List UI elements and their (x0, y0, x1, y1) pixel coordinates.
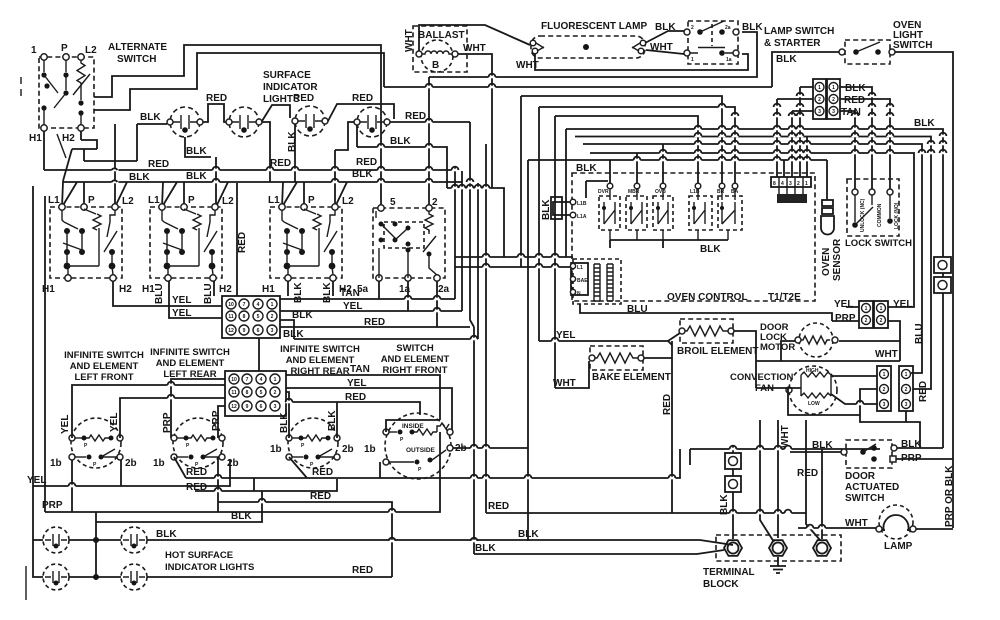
svg-text:L1: L1 (577, 265, 583, 271)
svg-text:2: 2 (880, 318, 883, 324)
bus row 5 to relay L1B (555, 116, 698, 183)
svg-text:2: 2 (818, 97, 821, 103)
svg-text:H2: H2 (62, 133, 75, 144)
wire 2b riser LF (120, 460, 122, 486)
wire TAN from block2 (286, 375, 440, 420)
svg-text:OVEN: OVEN (821, 248, 832, 276)
svg-text:BLK: BLK (140, 112, 161, 123)
svg-text:BLK: BLK (700, 244, 721, 255)
wire strip pin1 left drop (800, 87, 813, 177)
svg-text:BLK: BLK (292, 310, 313, 321)
svg-text:BLK: BLK (576, 163, 597, 174)
wire RED mid row 2 (195, 457, 392, 577)
infinite switch left rear (153, 410, 239, 469)
svg-text:P: P (88, 195, 95, 206)
BLK bus left (63, 181, 462, 182)
surface indicator light 1 (167, 107, 203, 137)
svg-text:AND ELEMENT: AND ELEMENT (156, 358, 225, 369)
wire PRP riser to lamps (95, 512, 97, 577)
svg-text:T1/T2E: T1/T2E (768, 292, 801, 303)
wire strip RED to lock switch no (840, 99, 890, 189)
hot surface indicator light 4 (121, 564, 147, 590)
wire RED jumper lamp3-lamp4 (328, 104, 394, 121)
svg-text:INFINITE SWITCH: INFINITE SWITCH (150, 347, 230, 358)
svg-text:YEL: YEL (893, 299, 912, 310)
terminal nut 1 (724, 540, 742, 556)
wire RED bottom row (147, 462, 392, 577)
svg-text:2b: 2b (342, 444, 354, 455)
svg-text:RED: RED (345, 392, 366, 403)
svg-text:WHT: WHT (780, 425, 791, 448)
wire BLK from lamp2 (147, 540, 733, 545)
svg-text:HOT SURFACE: HOT SURFACE (165, 550, 233, 561)
svg-text:2: 2 (274, 390, 277, 396)
svg-text:AND ELEMENT: AND ELEMENT (381, 354, 450, 365)
bake element (589, 346, 671, 383)
svg-text:BLK: BLK (186, 171, 207, 182)
svg-text:YEL: YEL (343, 301, 362, 312)
svg-text:SENSOR: SENSOR (832, 238, 843, 281)
wire left vertical A (32, 186, 34, 486)
svg-text:6: 6 (257, 328, 260, 334)
svg-text:1b: 1b (364, 444, 376, 455)
svg-text:AND ELEMENT: AND ELEMENT (286, 355, 355, 366)
svg-text:BLK: BLK (283, 329, 304, 340)
svg-text:2: 2 (832, 97, 835, 103)
wire RED from block1 (280, 281, 470, 327)
relay K3 (653, 183, 673, 240)
svg-text:L1: L1 (268, 195, 280, 206)
svg-text:OUTSIDE: OUTSIDE (406, 447, 436, 454)
svg-text:2: 2 (905, 387, 908, 393)
svg-text:H2: H2 (219, 284, 232, 295)
svg-text:YEL: YEL (109, 413, 120, 432)
svg-text:2: 2 (271, 314, 274, 320)
svg-text:WHT: WHT (463, 43, 486, 54)
svg-text:DOOR: DOOR (845, 471, 876, 482)
svg-text:1: 1 (818, 85, 821, 91)
wires relays up to bus (610, 144, 663, 183)
switch right front (364, 413, 467, 479)
wire strip pin2 left drop (777, 99, 813, 177)
broil element (677, 319, 758, 357)
RED bus left (44, 169, 458, 171)
connector strip pair top right (813, 79, 866, 119)
wire PRP row (45, 432, 440, 512)
svg-text:RED: RED (364, 317, 385, 328)
switch box 2 (left rear surface unit switch) (150, 207, 222, 278)
left edge scan dashes (20, 77, 22, 96)
svg-text:RED: RED (405, 111, 426, 122)
svg-text:RED: RED (293, 93, 314, 104)
svg-text:3: 3 (271, 328, 274, 334)
svg-text:1: 1 (31, 45, 37, 56)
svg-text:RED: RED (237, 232, 248, 253)
lock switch (845, 179, 912, 249)
svg-text:8: 8 (773, 181, 776, 187)
svg-text:BLK: BLK (390, 136, 411, 147)
svg-text:1b: 1b (153, 458, 165, 469)
surface indicator light 4 (354, 107, 390, 137)
svg-text:TAN: TAN (340, 288, 360, 299)
wire 1b riser RR (289, 457, 307, 478)
switch box 4 (right front surface unit switch) (373, 208, 445, 278)
svg-text:BLK: BLK (845, 83, 866, 94)
svg-text:3: 3 (832, 109, 835, 115)
wire YEL from block2 (286, 388, 452, 432)
wire hot surface row 1 (69, 539, 121, 541)
bus row 10 to oven sensor (598, 159, 827, 161)
wire BLK from block1 (280, 320, 294, 339)
svg-text:OVB: OVB (655, 189, 666, 195)
svg-text:INDICATOR: INDICATOR (263, 82, 318, 93)
svg-text:BALLAST: BALLAST (418, 30, 465, 41)
svg-text:YEL: YEL (60, 415, 71, 434)
svg-text:RED: RED (797, 468, 818, 479)
wire strip BLK to lock switch common (840, 87, 872, 189)
svg-text:1: 1 (805, 181, 808, 187)
wire RED mid row 1 (174, 449, 680, 478)
alternate switch box (39, 57, 94, 128)
wire RED from block2 (286, 402, 420, 415)
svg-text:BLK: BLK (541, 199, 552, 220)
svg-text:H1: H1 (262, 284, 275, 295)
svg-text:RED: RED (918, 381, 929, 402)
wire lamp right to PRP OR BLK riser (916, 528, 953, 530)
svg-text:2b: 2b (125, 458, 137, 469)
relay K1 (598, 183, 620, 240)
svg-text:P: P (308, 195, 315, 206)
terminal strip 84321 (771, 177, 811, 203)
svg-text:1: 1 (865, 306, 868, 312)
wire door lock motor right WHT (839, 340, 900, 342)
oven control left connector (551, 197, 562, 219)
svg-text:FLUORESCENT LAMP: FLUORESCENT LAMP (541, 21, 647, 32)
svg-text:RIGHT FRONT: RIGHT FRONT (383, 365, 448, 376)
bus row 2 to oven light switch (384, 86, 772, 88)
svg-text:1b: 1b (270, 444, 282, 455)
svg-text:PRP: PRP (835, 313, 856, 324)
wire lamp2 to bus (262, 122, 270, 182)
BLK row to terminal block 2 (474, 550, 724, 554)
surface indicator light 2 (226, 107, 262, 137)
svg-text:COMMON: COMMON (877, 203, 883, 227)
wire oven light switch right to right bus (895, 52, 953, 528)
resistor in alternate switch (77, 60, 85, 86)
terminal H2 (78, 125, 84, 131)
hot surface indicator light 3 (43, 564, 69, 590)
ballast (404, 26, 486, 72)
hot surface indicator light 2 (121, 527, 147, 553)
svg-text:7: 7 (246, 377, 249, 383)
wire stubs from buses to boxes (62, 182, 127, 207)
terminal P (63, 54, 69, 60)
svg-text:SWITCH: SWITCH (845, 493, 884, 504)
wire RED jumper lamp2-lamp3 (262, 105, 290, 121)
svg-text:3: 3 (274, 404, 277, 410)
terminal nut 3 (813, 540, 831, 556)
svg-text:2b: 2b (227, 458, 239, 469)
bus row 6 BLK to door switch (566, 129, 943, 257)
wire fluorescent bottom WHT (535, 54, 748, 70)
svg-text:BAE: BAE (577, 278, 588, 284)
YEL PRP connector mid right (834, 299, 912, 328)
wire WHT to lamp (798, 527, 876, 529)
svg-text:2: 2 (691, 25, 694, 31)
wire bake right down (644, 357, 672, 359)
svg-text:3: 3 (905, 402, 908, 408)
bus row 4 to relay BA (539, 107, 735, 183)
surface indicator light 3 (292, 106, 328, 136)
svg-text:BLK: BLK (186, 146, 207, 157)
hot surface indicator light 1 (43, 527, 69, 553)
svg-text:TERMINAL: TERMINAL (703, 567, 755, 578)
svg-text:RED: RED (148, 159, 169, 170)
mid connector squares (719, 453, 741, 515)
wire hot surface row 2 (69, 576, 121, 578)
terminal block (703, 535, 841, 590)
wires YEL PRP connector (832, 307, 900, 361)
svg-text:LEFT REAR: LEFT REAR (163, 369, 216, 380)
svg-text:RED: RED (206, 93, 227, 104)
wire fluorescent to lamp switch (645, 31, 684, 43)
svg-text:LOW: LOW (808, 401, 820, 407)
svg-text:RIGHT REAR: RIGHT REAR (290, 366, 349, 377)
svg-text:ALTERNATE: ALTERNATE (108, 42, 167, 53)
svg-text:RED: RED (356, 157, 377, 168)
svg-text:12: 12 (231, 404, 237, 410)
wire 1b riser LF (71, 460, 73, 512)
svg-text:AND ELEMENT: AND ELEMENT (70, 361, 139, 372)
svg-text:BLU: BLU (914, 323, 925, 344)
svg-text:1: 1 (271, 302, 274, 308)
box4 internals (376, 211, 437, 278)
svg-text:RED: RED (310, 491, 331, 502)
svg-text:PRP: PRP (162, 412, 173, 433)
svg-text:8: 8 (243, 314, 246, 320)
wire staircase A from alternate switch (94, 45, 381, 205)
svg-text:RED: RED (312, 467, 333, 478)
svg-text:RED: RED (488, 501, 509, 512)
svg-text:L1: L1 (48, 195, 60, 206)
svg-text:BLU: BLU (203, 283, 214, 304)
relay bottom bus (586, 181, 728, 248)
svg-text:L1A: L1A (577, 214, 587, 220)
svg-text:1a: 1a (726, 57, 732, 63)
wire RED row from lamp4 (390, 121, 470, 123)
door actuated switch (841, 439, 922, 504)
svg-text:5: 5 (390, 197, 396, 208)
svg-text:YEL: YEL (834, 299, 853, 310)
svg-text:LAMP SWITCH: LAMP SWITCH (764, 26, 834, 37)
svg-text:LEFT FRONT: LEFT FRONT (74, 372, 133, 383)
svg-text:YEL: YEL (172, 308, 191, 319)
svg-text:BLK: BLK (812, 440, 833, 451)
svg-text:6: 6 (260, 404, 263, 410)
svg-text:4: 4 (257, 302, 260, 308)
wire BLU risers box2 (213, 281, 215, 296)
wires left of block2 (171, 379, 225, 438)
svg-text:PRP: PRP (42, 500, 63, 511)
svg-text:INFINITE SWITCH: INFINITE SWITCH (64, 350, 144, 361)
svg-text:BLK: BLK (156, 529, 177, 540)
wire H1 H2 alternate switch down (44, 131, 81, 170)
svg-text:SWITCH: SWITCH (396, 343, 434, 354)
svg-text:1: 1 (905, 372, 908, 378)
wire TAN from block1 (280, 281, 455, 299)
wire BLK row upper (96, 491, 262, 522)
svg-text:1: 1 (880, 306, 883, 312)
svg-text:12: 12 (228, 328, 234, 334)
svg-text:BLK: BLK (231, 511, 252, 522)
svg-text:H1: H1 (29, 133, 42, 144)
svg-text:1: 1 (832, 85, 835, 91)
svg-text:BLK: BLK (129, 172, 150, 183)
svg-text:1: 1 (883, 372, 886, 378)
svg-text:INDICATOR LIGHTS: INDICATOR LIGHTS (165, 562, 254, 573)
svg-text:WHT: WHT (845, 518, 868, 529)
transformer feed rows (455, 256, 573, 258)
svg-text:YEL: YEL (27, 475, 46, 486)
svg-text:2: 2 (865, 318, 868, 324)
RED row mid bottom (486, 512, 806, 514)
svg-text:BLK: BLK (475, 543, 496, 554)
svg-text:SWITCH: SWITCH (117, 54, 156, 65)
svg-text:5: 5 (260, 390, 263, 396)
bus row 1 to lamp switch (429, 32, 757, 77)
svg-text:2: 2 (432, 197, 438, 208)
riser wires infinite switches (72, 385, 225, 438)
svg-text:4: 4 (260, 377, 263, 383)
oven control box (572, 173, 815, 301)
svg-text:SWITCH: SWITCH (893, 40, 932, 51)
svg-text:RED: RED (844, 95, 865, 106)
svg-text:CONVECTION: CONVECTION (730, 372, 793, 383)
svg-text:3: 3 (789, 181, 792, 187)
svg-text:BLOCK: BLOCK (703, 579, 739, 590)
relay K2 (626, 183, 647, 240)
wire YEL to broil (539, 333, 680, 341)
svg-text:SURFACE: SURFACE (263, 70, 311, 81)
svg-text:2a: 2a (725, 25, 731, 31)
svg-text:LAMP: LAMP (884, 541, 913, 552)
svg-text:YEL: YEL (347, 378, 366, 389)
bus row 8 BLU to convection connector (583, 144, 922, 373)
svg-text:1b: 1b (50, 458, 62, 469)
svg-text:RED: RED (186, 467, 207, 478)
wire ballast left up and over (419, 25, 530, 51)
svg-text:UNLOCK (NC): UNLOCK (NC) (860, 198, 866, 232)
wire left feeder to lamps (33, 486, 43, 577)
svg-text:BAKE ELEMENT: BAKE ELEMENT (592, 372, 671, 383)
wire BLK risers box3 (288, 281, 333, 296)
wire RED vertical between box2 and block (236, 183, 238, 296)
svg-text:3: 3 (818, 109, 821, 115)
wire lamp switch starter bar (698, 47, 725, 49)
wire broil to vertical RED (734, 331, 756, 388)
svg-text:INFINITE SWITCH: INFINITE SWITCH (280, 344, 360, 355)
relay K5 (717, 183, 742, 240)
svg-text:PRP: PRP (211, 410, 222, 431)
svg-text:BLK: BLK (719, 494, 730, 515)
wire feed row to transformer (447, 188, 504, 257)
svg-text:8: 8 (246, 390, 249, 396)
alternate switch internals (43, 60, 45, 72)
relay K4 (689, 183, 712, 240)
terminal nut 2 (769, 540, 787, 556)
svg-text:2a: 2a (438, 284, 450, 295)
convection fan (730, 366, 837, 414)
wires door actuated switch (790, 451, 841, 453)
wire staircase B from alternate switch (94, 53, 384, 110)
svg-text:& STARTER: & STARTER (764, 38, 821, 49)
svg-text:2: 2 (883, 387, 886, 393)
svg-text:LOCK (NO): LOCK (NO) (894, 202, 900, 229)
svg-text:RED: RED (662, 394, 673, 415)
svg-text:L1: L1 (148, 195, 160, 206)
door lock motor (760, 322, 838, 357)
svg-text:4: 4 (781, 181, 784, 187)
svg-text:WHT: WHT (553, 378, 576, 389)
vertical bus bundle middle (454, 166, 456, 299)
wires fan to strips (831, 375, 877, 377)
svg-text:10: 10 (228, 302, 234, 308)
svg-text:2: 2 (797, 181, 800, 187)
svg-text:L2: L2 (222, 196, 234, 207)
right edge connector squares (934, 257, 951, 293)
wire door lock motor left (781, 341, 795, 361)
svg-text:5: 5 (257, 314, 260, 320)
switch box 1 (left front surface unit switch) (50, 207, 122, 278)
svg-text:L1B: L1B (577, 201, 587, 207)
wire WHT stub fluorescent right (646, 50, 684, 54)
svg-text:BLU: BLU (154, 283, 165, 304)
svg-text:L2: L2 (122, 196, 134, 207)
wire BLK to lamp1 (137, 123, 167, 125)
bus row 7 RED to convection connector (575, 137, 931, 390)
wire BLK into oven light switch (772, 52, 839, 87)
wire lamp3 left down (294, 124, 296, 182)
svg-text:WHT: WHT (875, 349, 898, 360)
svg-text:N: N (577, 291, 581, 297)
svg-text:PRP OR BLK: PRP OR BLK (944, 465, 955, 527)
svg-text:YEL: YEL (172, 295, 191, 306)
svg-text:10: 10 (231, 377, 237, 383)
terminal 1 (41, 54, 47, 60)
infinite switch right rear (270, 410, 354, 468)
svg-text:MBR: MBR (628, 189, 640, 195)
leader line (57, 134, 66, 158)
svg-text:3: 3 (883, 402, 886, 408)
svg-text:ACTUATED: ACTUATED (845, 482, 899, 493)
svg-text:RED: RED (352, 565, 373, 576)
wire RED jumper lamp1-lamp2 (203, 104, 226, 122)
wire WHT to bake (555, 361, 589, 388)
wire left vertical B to PRP (44, 196, 46, 512)
svg-text:L2: L2 (85, 45, 97, 56)
svg-text:1: 1 (691, 57, 694, 63)
svg-text:BLK: BLK (287, 131, 298, 152)
svg-text:BLK: BLK (914, 118, 935, 129)
connector block 1 (222, 296, 280, 338)
wire BLU from transformer (580, 304, 832, 321)
left edge artifact tick (25, 566, 27, 600)
wire strip TAN to lock switch nc (840, 111, 855, 189)
convection connector strips (877, 366, 929, 411)
wire BLK row from lamp4 left (357, 125, 447, 188)
svg-text:OVEN CONTROL: OVEN CONTROL (667, 292, 748, 303)
svg-text:B: B (432, 60, 439, 71)
